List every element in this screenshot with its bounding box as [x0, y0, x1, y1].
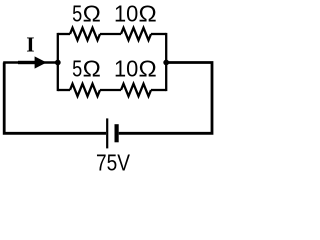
svg-text:I: I: [26, 32, 34, 56]
current arrow I (on input lead): [18, 56, 47, 68]
resistor R4 10Ω (bottom branch right): [121, 84, 151, 96]
wire: top branch middle segment: [100, 33, 121, 35]
wire: bottom branch left segment: [58, 89, 70, 91]
resistor R3 5Ω (bottom branch left): [70, 84, 100, 96]
svg-text:Ω: Ω: [139, 57, 157, 82]
node B (right junction dot): [163, 60, 169, 66]
svg-text:Ω: Ω: [83, 2, 101, 27]
svg-text:5: 5: [72, 56, 82, 82]
label: 10Ω top: [114, 1, 157, 27]
label: 5Ω top: [72, 2, 101, 28]
label: 5Ω bottom: [72, 56, 101, 82]
wire: bottom branch middle segment: [100, 89, 121, 91]
svg-text:75V: 75V: [96, 151, 130, 176]
svg-text:5: 5: [72, 2, 82, 28]
svg-text:10: 10: [114, 1, 138, 27]
node A (left junction dot): [55, 60, 61, 66]
wire: left outer loop (top-left to bottom-left to battery): [4, 63, 106, 134]
wire: bottom branch right segment: [151, 89, 166, 91]
svg-text:Ω: Ω: [139, 2, 157, 27]
wire: right inner vertical (node B to both branch rails): [165, 33, 167, 91]
wire: bottom-right rail from battery to right side up to right node level: [119, 63, 212, 134]
wire: left inner vertical (node A to both branch rails): [57, 33, 59, 91]
wire: top branch right segment: [151, 33, 166, 35]
svg-text:10: 10: [114, 56, 138, 82]
wire: top branch left segment: [58, 33, 70, 35]
svg-text:Ω: Ω: [83, 57, 101, 82]
battery B1 long plate (positive): [106, 118, 108, 148]
wire: input lead from left loop to node A: [3, 61, 58, 64]
label: 10Ω bottom: [114, 56, 157, 82]
battery B1 short plate (negative): [114, 124, 118, 142]
resistor R2 10Ω (top branch right): [121, 28, 151, 40]
resistor R1 5Ω (top branch left): [70, 28, 100, 40]
